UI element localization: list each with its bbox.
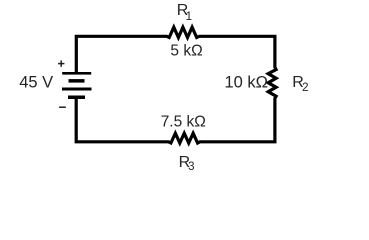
svg-text:5 kΩ: 5 kΩ <box>170 43 202 60</box>
svg-text:2: 2 <box>302 82 308 94</box>
svg-text:7.5 kΩ: 7.5 kΩ <box>161 113 206 130</box>
svg-text:3: 3 <box>188 161 194 173</box>
svg-text:1: 1 <box>186 11 192 23</box>
svg-text:45 V: 45 V <box>19 74 53 92</box>
svg-text:10 kΩ: 10 kΩ <box>225 73 269 91</box>
